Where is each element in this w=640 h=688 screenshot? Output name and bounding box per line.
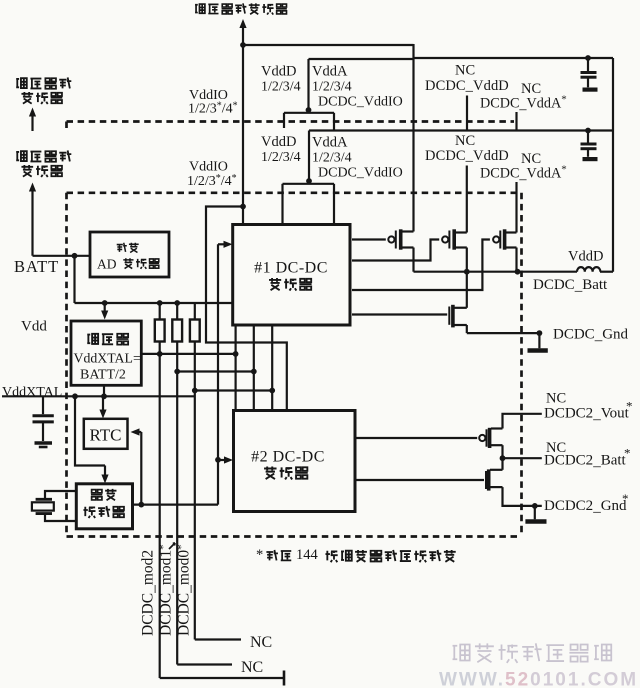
svg-text:WWW.520101.COM: WWW.520101.COM [439,670,638,688]
svg-text:DCDC_Batt: DCDC_Batt [533,277,608,294]
svg-text:#1 DC-DC: #1 DC-DC [254,260,328,277]
capacitor C3 (VddXTAL) [42,396,44,414]
wire DCDC2_Batt [501,445,503,470]
node Batt-Q2 [464,269,470,275]
wire to crystal osc [75,396,105,465]
wire NC2 [177,663,232,665]
node BATT branch [72,253,78,259]
svg-text:144: 144 [296,547,319,563]
node row2 box bottom [306,178,312,184]
wire row1 jumper [307,110,309,113]
NMOS Q6 [485,471,487,489]
PMOS Q3 [493,236,499,242]
svg-text:RTC: RTC [89,426,121,445]
svg-text:VddD: VddD [261,134,296,150]
svg-text:Vdd: Vdd [21,319,47,335]
label crystal [91,490,102,500]
wire DCDC2_Gnd [503,487,542,506]
node B-V [251,369,257,375]
capacitor C1 [587,58,589,71]
svg-text:#2 DC-DC: #2 DC-DC [251,449,325,466]
node crystal osc output [138,502,144,508]
svg-text:VddA: VddA [312,135,348,151]
wire DCDC_VddA stub row2 to PMOS Q3 drain [515,182,517,233]
svg-text:*: * [624,446,631,461]
svg-text:DCDC_VddD: DCDC_VddD [425,148,509,164]
svg-text:NC: NC [546,391,566,407]
svg-text:1/2/3*/4*: 1/2/3*/4* [187,173,237,189]
wire NC1 [195,638,241,640]
node DCDC2_Gnd [532,503,538,509]
wire DCDC_Gnd [467,332,540,334]
wire line B [177,370,254,372]
wire box1 feed c [271,325,273,411]
PMOS Q1 [388,236,394,242]
label low-res [117,243,127,252]
wire line C [195,389,272,391]
regulator box U2 [71,321,141,385]
node cap2 tap [585,128,591,134]
NMOS Q4 [448,307,450,325]
svg-text:VddA: VddA [312,64,348,80]
label box row1 (VddA) [309,58,414,60]
svg-text:NC: NC [455,63,475,79]
svg-text:BATT/2: BATT/2 [80,368,126,383]
node A-R1 [157,351,163,357]
node DCDC_Gnd [537,330,543,336]
resistor R1 [155,320,165,342]
svg-text:DCDC_VddA*: DCDC_VddA* [480,94,567,113]
PMOS Q2 gate wire [352,240,439,261]
svg-text:DCDC_Gnd: DCDC_Gnd [553,327,629,344]
PMOS Q3 gate wire [352,240,490,291]
wire crystal osc output [133,504,219,506]
svg-text:NC: NC [241,659,263,676]
label oscillator [83,507,95,518]
wire right edge vertical [612,58,614,272]
node VddXTAL cap branch [72,393,78,399]
wire box1 feed b [253,325,255,411]
svg-text:DCDC_VddIO: DCDC_VddIO [318,95,403,110]
wire supply to DC-DC2 (V1) [206,207,287,411]
svg-text:VddD: VddD [261,64,296,80]
node DCDC2_Batt [500,455,506,461]
svg-text:1/2/3/4: 1/2/3/4 [261,150,301,165]
svg-text:*: * [256,547,263,563]
node regulator tap [102,300,108,306]
svg-text:VddIO: VddIO [189,160,228,175]
dashed chip boundary box [67,191,522,194]
crystal X1 [36,498,52,501]
svg-text:VddD: VddD [568,249,603,265]
wire main supply vertical [242,45,244,225]
node C-R3 [192,388,198,394]
watermark chinese [453,643,612,662]
svg-text:DCDC_mod0*: DCDC_mod0* [176,544,194,636]
svg-text:NC: NC [250,634,272,651]
svg-text:1/2/3/4: 1/2/3/4 [312,151,352,166]
wire regulator line A [141,353,235,355]
NMOS Q4 gate wire [352,313,447,315]
svg-text:DCDC2_Gnd: DCDC2_Gnd [544,498,627,515]
wire DCDC2_Vout [503,414,542,429]
wire regulator output down [103,385,105,396]
capacitor C2 [587,131,589,143]
svg-text:1/2/3/4: 1/2/3/4 [261,80,301,95]
dashed boundary line 1 [67,120,515,123]
label regulator-or-converter (left lower) [16,151,27,161]
svg-text:DCDC_VddD: DCDC_VddD [425,78,509,94]
PMOS Q5 gate wire [357,437,478,439]
wire R3 top [194,303,196,320]
wire cap2 rail / row2 label box top [309,129,613,131]
PMOS Q2 [442,236,448,242]
inductor L1 (VddD) [577,267,600,272]
svg-text:1/2/3*/4*: 1/2/3*/4* [188,101,238,117]
wire DCDC_VddD stub row1 [466,96,468,131]
RTC box U3 [84,419,128,449]
resistor R2 [172,320,182,342]
wire crystal top [45,491,76,499]
label regulator [87,334,98,344]
svg-text:NC: NC [455,133,475,149]
ground sym 1 [538,333,540,348]
svg-text:DCDC2_Batt: DCDC2_Batt [544,453,627,470]
arrow into regulator box [104,303,106,312]
svg-text:DCDC_mod1*: DCDC_mod1* [158,544,176,636]
arrow up left upper [29,108,36,117]
svg-text:DCDC_VddIO: DCDC_VddIO [318,166,403,181]
ground sym 2 [534,506,536,519]
svg-text:DCDC_VddA*: DCDC_VddA* [480,164,567,183]
wire DCDC_VddA stub row1 [515,112,517,131]
arrow into RTC [102,396,104,411]
AD converter box U1 [90,232,169,277]
svg-text:*: * [626,399,633,414]
arrow up left lower / BATT riser [29,183,36,192]
label box row2 (VddA) [308,131,310,182]
NMOS Q6 gate wire [357,479,485,481]
wire cap1 rail [414,57,614,59]
svg-text:VddXTAL: VddXTAL [2,385,62,400]
wire DCDC_VddD stub row2 to PMOS Q2 drain [466,166,468,233]
node B-R2 [174,369,180,375]
PMOS Q1 gate wire [352,238,386,240]
wire box1 feed a [235,325,237,411]
svg-text:DCDC2_Vout: DCDC2_Vout [544,406,630,423]
wire BATT down branch [73,256,75,303]
node A-V [233,351,239,357]
wire DCDC_Batt rail [414,271,578,273]
wire mod1 vertical [176,342,178,665]
wire top horizontal [243,44,414,46]
wire Vdd distribution horizontal [75,302,233,304]
wire VddD/Batt right rail vertical [412,44,414,232]
svg-text:1/2/3/4: 1/2/3/4 [312,80,352,95]
resistor R3 [190,320,200,342]
crystal oscillator box U4 [76,484,132,529]
wire mod2 vertical [159,342,161,679]
node clock to DC-DC2 [215,457,221,463]
wire crystal bottom [45,514,76,521]
node C-V [269,388,275,394]
wire RTC clock input [136,431,141,433]
svg-text:*: * [622,491,629,506]
wire mod0 vertical [194,342,196,640]
svg-text:DCDC_mod2: DCDC_mod2 [140,550,158,636]
arrow to top regulator [239,19,246,28]
wire mod2 terminator [160,677,284,679]
label regulator-or-converter (left upper) [16,78,27,88]
wire R1 top [159,303,161,320]
svg-text:BATT: BATT [14,257,59,276]
svg-text:AD: AD [97,257,117,272]
node Batt-Q3 [515,269,521,275]
node supply branch [240,204,246,210]
node VddXTAL reg [101,393,107,399]
node R1 tap [157,300,163,306]
wire clock feed (V2) with arrows [218,243,227,245]
node R2 tap [174,300,180,306]
node row1 box bottom [306,107,312,113]
PMOS Q5 [479,435,485,441]
label converter 1 [269,278,281,290]
label converter 2 [264,467,276,479]
wire R2 top [176,303,178,320]
svg-text:VddXTAL=: VddXTAL= [74,351,141,366]
wire row2 jumper [308,181,310,184]
node main supply top [240,42,246,48]
node cap1 tap [585,55,591,61]
wire BATT [33,255,91,257]
label regulator-or-converter (top centre) [195,4,205,13]
DC-DC converter 1 box U5 [233,225,350,326]
DC-DC converter 2 box U6 [234,411,356,512]
wire VddXTAL net [2,395,195,397]
